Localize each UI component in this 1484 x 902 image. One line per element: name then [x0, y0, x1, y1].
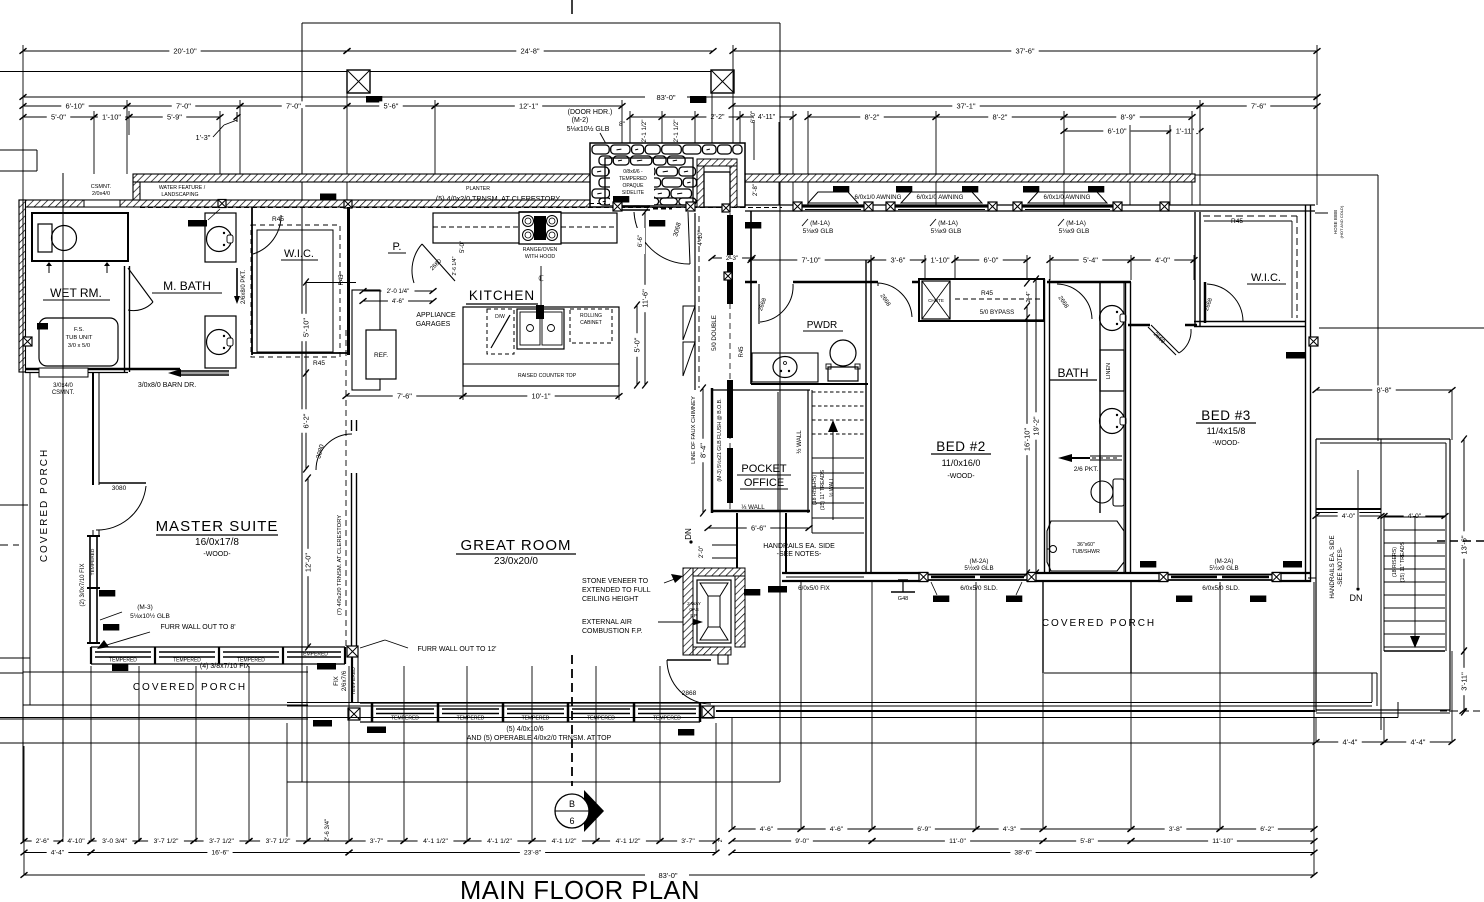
wet rm toilet room walls [32, 213, 128, 261]
stair wall left mid [811, 390, 813, 533]
top wall right segment (under awnings) [745, 204, 1315, 206]
wic left room dashed [251, 225, 340, 357]
svg-text:16'-10": 16'-10" [1022, 428, 1031, 452]
tag planter2 [320, 194, 336, 201]
corner tick 83ft [1314, 94, 1321, 100]
svg-text:11'-6": 11'-6" [640, 289, 649, 308]
svg-text:4'-1 1/2": 4'-1 1/2" [423, 838, 448, 845]
svg-text:6'-9": 6'-9" [917, 826, 931, 833]
svg-text:3'-6": 3'-6" [891, 255, 906, 264]
pocket office inner wall [777, 392, 779, 511]
extension lines to bottom dims [90, 666, 92, 842]
svg-text:WATER FEATURE /: WATER FEATURE / [159, 185, 206, 191]
window csmnt top wall [84, 200, 120, 207]
svg-text:DN: DN [684, 528, 693, 540]
svg-text:6/0x5/0 FIX: 6/0x5/0 FIX [798, 585, 830, 592]
interior dim row bedrooms [751, 259, 871, 261]
svg-text:30351: 30351 [1178, 597, 1191, 602]
svg-text:HOSE BIBB: HOSE BIBB [1333, 210, 1338, 234]
svg-text:11'-0": 11'-0" [949, 838, 966, 845]
svg-text:5'-9": 5'-9" [167, 112, 182, 121]
porch left verticals [22, 200, 24, 842]
svg-text:TUB/SHWR: TUB/SHWR [1072, 549, 1100, 555]
awning window W1 [808, 192, 858, 203]
fix corner window [351, 649, 353, 703]
svg-text:4'-6": 4'-6" [392, 298, 404, 305]
svg-text:0/8x6/6 -: 0/8x6/6 - [623, 169, 643, 175]
svg-text:5'-6": 5'-6" [384, 101, 399, 110]
svg-text:G48: G48 [898, 596, 908, 602]
svg-text:2/6x7/6: 2/6x7/6 [341, 670, 348, 691]
wic door arc from mbath [253, 215, 281, 254]
porch post right wing [1042, 582, 1044, 673]
svg-text:4'-4": 4'-4" [51, 850, 65, 857]
svg-text:TEMPERED: TEMPERED [587, 716, 615, 722]
fireplace interior [697, 580, 731, 643]
steps at greatroom exit [712, 544, 737, 546]
bottom dim row right 1 [732, 828, 801, 830]
svg-text:7'-10": 7'-10" [801, 255, 820, 264]
svg-text:4'-4": 4'-4" [1411, 737, 1426, 746]
tub unit [39, 318, 118, 366]
svg-text:4-121: 4-121 [1090, 187, 1102, 192]
svg-text:TUB UNIT: TUB UNIT [66, 335, 93, 341]
svg-text:-SEE NOTES-: -SEE NOTES- [777, 551, 822, 558]
wet rm bottom wall [25, 368, 128, 371]
appliance garage dims [363, 290, 433, 292]
svg-text:13121: 13121 [322, 195, 335, 200]
entry dashed sill [590, 203, 605, 205]
wic bottom wall [252, 352, 347, 354]
deck right treads [1384, 516, 1445, 518]
svg-text:(15) 11" TREADS: (15) 11" TREADS [1400, 541, 1406, 582]
svg-text:4'-0": 4'-0" [1342, 513, 1356, 520]
entry hall door 2668 (pwdr door) [758, 284, 760, 324]
double doors 5/0 [683, 306, 695, 340]
svg-text:6: 6 [569, 816, 574, 826]
svg-text:8'-2": 8'-2" [865, 112, 880, 121]
svg-text:2": 2" [718, 838, 724, 843]
svg-text:11/4x15/8: 11/4x15/8 [1207, 426, 1246, 436]
master porch door 3080 [99, 482, 146, 484]
fireplace chimney stub [718, 655, 728, 664]
great room south window band [360, 702, 700, 704]
bath top wall [1047, 281, 1131, 284]
xbox below wic [1309, 337, 1318, 346]
svg-text:(M-1A): (M-1A) [810, 220, 830, 227]
svg-text:9'-0": 9'-0" [795, 838, 809, 845]
svg-text:6'-2": 6'-2" [1260, 826, 1274, 833]
bed2 right wall [1044, 279, 1046, 573]
pocket 6'-6 dim [708, 527, 809, 529]
svg-text:W.I.C.: W.I.C. [1251, 272, 1281, 284]
svg-text:6/0x1/0 AWNING: 6/0x1/0 AWNING [855, 194, 902, 201]
svg-text:37'-1": 37'-1" [956, 101, 975, 110]
svg-text:FURR WALL OUT TO 8': FURR WALL OUT TO 8' [160, 624, 235, 631]
pantry door 2680 [422, 244, 455, 281]
svg-text:7'-0": 7'-0" [286, 101, 301, 110]
svg-text:STONE VENEER TO: STONE VENEER TO [582, 578, 649, 585]
dim row 7'-6 right [1200, 105, 1317, 107]
svg-text:13'-6": 13'-6" [1459, 535, 1468, 554]
csmnt window bottom [39, 368, 88, 377]
svg-text:(M-2A): (M-2A) [970, 558, 989, 565]
svg-text:3'-7": 3'-7" [681, 838, 695, 845]
svg-text:2'-6": 2'-6" [36, 838, 50, 845]
svg-text:(4) 3/8x7/10 FIX: (4) 3/8x7/10 FIX [200, 663, 251, 670]
kitchen vdims right [644, 212, 646, 385]
svg-text:RANGE/OVEN: RANGE/OVEN [523, 247, 558, 253]
stair shaft walls mid [865, 260, 867, 573]
svg-text:4'-6": 4'-6" [830, 826, 844, 833]
svg-text:3'-7 1/2": 3'-7 1/2" [154, 838, 179, 845]
svg-text:R45: R45 [739, 346, 745, 358]
svg-text:10.851: 10.851 [770, 587, 784, 592]
svg-text:3080: 3080 [112, 485, 127, 492]
mbath vanity lower [205, 316, 236, 368]
svg-text:F.P.: F.P. [690, 613, 697, 618]
8'-4 vdim [702, 388, 704, 513]
svg-text:HANDRAILS EA. SIDE: HANDRAILS EA. SIDE [763, 543, 835, 550]
barn door [180, 370, 229, 372]
deck bottom lines [1316, 709, 1450, 711]
svg-text:5.1161: 5.1161 [1289, 353, 1303, 358]
wic inner solid [257, 230, 333, 352]
svg-text:30351: 30351 [1252, 597, 1265, 602]
svg-text:6'-6": 6'-6" [638, 235, 644, 247]
svg-text:6.0121: 6.0121 [315, 721, 329, 726]
svg-text:B&B: B&B [38, 324, 47, 329]
svg-text:2'-6 1/4": 2'-6 1/4" [452, 256, 458, 275]
svg-text:6'-10": 6'-10" [1107, 126, 1126, 135]
svg-text:2'-1 1/2": 2'-1 1/2" [641, 119, 648, 142]
svg-text:5⅛x9 GLB: 5⅛x9 GLB [931, 228, 962, 235]
mid stairs solid treads [812, 457, 864, 459]
svg-text:KITCHEN: KITCHEN [469, 288, 535, 303]
dashed line right [1437, 540, 1484, 542]
wet rm door diag [128, 268, 153, 302]
kitchen dims bottom [346, 395, 463, 397]
svg-text:10'-1": 10'-1" [531, 391, 550, 400]
svg-text:(M-3): (M-3) [137, 604, 153, 611]
south wall segments right wing [868, 572, 928, 574]
column box C2 [711, 70, 734, 93]
svg-text:5'-0": 5'-0" [51, 112, 66, 121]
door jamb hatch [697, 159, 737, 166]
svg-text:38'-6": 38'-6" [1014, 850, 1032, 857]
svg-text:2-WAY: 2-WAY [687, 601, 701, 606]
master/great wall [351, 473, 353, 649]
12-0 vdim [307, 478, 309, 647]
svg-text:3'-8": 3'-8" [1169, 826, 1183, 833]
B6 marker [584, 790, 604, 832]
post line y71 [0, 71, 712, 73]
closet dashed [955, 298, 1040, 300]
mbath vanity upper [205, 213, 236, 262]
svg-text:5⅛x10½ GLB: 5⅛x10½ GLB [130, 612, 170, 620]
svg-text:TEMPERED: TEMPERED [173, 658, 201, 664]
entry corridor west wall [694, 213, 696, 390]
sprinkler marks [48, 266, 50, 273]
wic dashed shelving [1203, 215, 1297, 217]
master south window band [91, 646, 345, 648]
stair shaft left wall lower [785, 513, 787, 573]
sidelite inner panel [605, 158, 693, 205]
svg-text:(HOT AND COLD): (HOT AND COLD) [1339, 205, 1344, 238]
svg-text:⅓ WALL: ⅓ WALL [741, 504, 765, 511]
svg-text:RAISED COUNTER TOP: RAISED COUNTER TOP [518, 373, 577, 379]
svg-text:30351: 30351 [935, 597, 948, 602]
tag sidelite [613, 196, 629, 203]
bed3 door [1148, 327, 1176, 355]
svg-text:2'-0": 2'-0" [699, 546, 705, 558]
svg-text:R45: R45 [981, 290, 993, 297]
pwdr top wall segments [912, 281, 919, 284]
master door 3080 [351, 420, 353, 431]
svg-text:-SEE NOTES-: -SEE NOTES- [1337, 547, 1344, 587]
awning window W3 [1028, 192, 1107, 203]
svg-text:(15) 11" TREADS: (15) 11" TREADS [820, 469, 826, 510]
svg-text:1'-10": 1'-10" [102, 112, 121, 121]
svg-text:WET RM.: WET RM. [50, 286, 102, 300]
great room east wall stub [736, 513, 738, 568]
svg-text:3'-0 3/4": 3'-0 3/4" [102, 838, 127, 845]
svg-text:R45: R45 [272, 216, 284, 223]
dim line 83'-0 [23, 96, 1317, 98]
awning dim row 8'-2 etc [808, 116, 936, 118]
deck upper rect [1316, 438, 1450, 440]
svg-text:TEMPERED: TEMPERED [457, 716, 485, 722]
dim row 20'-10 / 24'-8 / 37'-6 [23, 50, 347, 52]
svg-text:4'-1 1/2": 4'-1 1/2" [487, 838, 512, 845]
kitchen counter top run [433, 213, 617, 243]
small xbox chimney [724, 272, 732, 280]
bed2 vdim 16-10 [1026, 306, 1028, 573]
tag tub [37, 323, 48, 330]
kitchen centerline [540, 266, 542, 306]
svg-text:(18 RISERS): (18 RISERS) [812, 475, 818, 505]
leader door hdr [600, 133, 640, 205]
svg-text:TEMPERED: TEMPERED [90, 548, 96, 575]
awning window W2 [901, 192, 982, 203]
svg-text:11'-10": 11'-10" [1212, 838, 1233, 845]
svg-text:7'-6": 7'-6" [1251, 101, 1266, 110]
svg-text:4'-3": 4'-3" [1003, 826, 1017, 833]
pwdr bottom wall [751, 383, 868, 385]
island sink [517, 309, 564, 349]
bed2 vdim 19-2 [1035, 279, 1037, 573]
tag entry [649, 220, 665, 227]
vdim 5-10 [305, 282, 307, 373]
svg-text:5.3121: 5.3121 [190, 221, 204, 226]
svg-text:LANDSCAPING: LANDSCAPING [161, 192, 198, 198]
clerestory outline rectangle [302, 22, 780, 24]
svg-text:4-121: 4-121 [1025, 187, 1037, 192]
front door recess [704, 172, 730, 207]
svg-text:LINE OF FAUX CHIMNEY: LINE OF FAUX CHIMNEY [691, 396, 697, 464]
entry grid lines [753, 122, 755, 160]
svg-text:12'-1": 12'-1" [519, 101, 538, 110]
hall bottom wall wetrm [128, 368, 180, 371]
svg-text:6'-0": 6'-0" [984, 255, 999, 264]
svg-text:4'-4": 4'-4" [1343, 737, 1358, 746]
svg-text:5/0 BYPASS: 5/0 BYPASS [980, 309, 1015, 316]
tag mbath window [188, 220, 207, 227]
stair bottom window [782, 572, 868, 574]
svg-text:7'-6": 7'-6" [397, 391, 412, 400]
bed3 hall wall [1128, 324, 1150, 327]
svg-text:P.: P. [393, 241, 402, 253]
bedroom window 2 sld [1168, 574, 1272, 576]
svg-text:6/0x5/0 SLD.: 6/0x5/0 SLD. [960, 585, 998, 592]
deck mid rail [1380, 439, 1382, 730]
wic left wall [251, 207, 253, 355]
svg-text:TEMPERED: TEMPERED [522, 716, 550, 722]
svg-text:TEMPERED: TEMPERED [300, 652, 328, 658]
dim 4-0 4-0 deck [1316, 515, 1381, 517]
svg-text:4'-0": 4'-0" [1155, 255, 1170, 264]
svg-text:30351: 30351 [1008, 597, 1021, 602]
svg-text:2'-3": 2'-3" [726, 255, 738, 262]
bottom dim row 1 left [24, 840, 61, 842]
section cut tick top [571, 0, 573, 14]
svg-text:MASTER SUITE: MASTER SUITE [156, 518, 279, 535]
svg-text:6'-2": 6'-2" [301, 413, 310, 428]
bottom dim row 2 left [24, 852, 91, 854]
svg-text:4.9141: 4.9141 [319, 664, 333, 669]
xbox top wall [218, 200, 226, 208]
bottom dim row right 3 [732, 852, 1314, 854]
svg-text:2/6x8/0 PKT.: 2/6x8/0 PKT. [241, 270, 247, 304]
pwdr sink [752, 353, 818, 382]
svg-text:-WOOD-: -WOOD- [947, 473, 975, 480]
svg-text:BED #3: BED #3 [1201, 408, 1251, 423]
svg-text:25301: 25301 [101, 591, 114, 596]
master sw step [93, 530, 99, 536]
svg-text:8'-9": 8'-9" [1121, 112, 1136, 121]
svg-text:BATH: BATH [1057, 366, 1088, 380]
bath vanity wall [1099, 282, 1101, 513]
svg-text:-WOOD-: -WOOD- [203, 551, 231, 558]
pocket office walls [711, 388, 714, 513]
svg-text:(7) 4/0x2/0 TRNSM. AT CLERESTO: (7) 4/0x2/0 TRNSM. AT CLERESTORY [337, 515, 343, 615]
xbox chimney top [722, 204, 730, 212]
dim row A y106 [23, 105, 127, 107]
bed3 wic walls [1194, 212, 1196, 327]
wall xboxes right [1160, 202, 1169, 211]
dim row B right of entry [627, 114, 634, 120]
svg-text:3/0 x 5/0: 3/0 x 5/0 [68, 343, 90, 349]
8'-8 dim bed3 [1316, 389, 1452, 391]
svg-text:(M-1A): (M-1A) [1066, 220, 1086, 227]
svg-text:GREAT ROOM: GREAT ROOM [460, 537, 571, 554]
svg-text:COVERED PORCH: COVERED PORCH [133, 682, 247, 693]
rolling cabinet dashed [570, 309, 612, 343]
svg-text:2'-1 1/2": 2'-1 1/2" [673, 119, 680, 142]
wet rm toilet [38, 224, 52, 252]
svg-text:TEMPERED: TEMPERED [619, 176, 647, 182]
svg-text:6x6 P: 6x6 P [692, 98, 704, 103]
extension lines top dims [22, 45, 24, 200]
G48 symbol [898, 579, 908, 581]
svg-text:3'-11": 3'-11" [1459, 672, 1468, 691]
svg-text:6/0x1/0 AWNING: 6/0x1/0 AWNING [1044, 194, 1091, 201]
left exterior wall [19, 200, 26, 372]
svg-text:2'-0 1/4": 2'-0 1/4" [387, 288, 410, 295]
tag planter3 [641, 184, 657, 191]
svg-text:6/0x5/0 SLD.: 6/0x5/0 SLD. [1202, 585, 1240, 592]
svg-text:60661: 60661 [680, 730, 693, 735]
svg-text:6'-6": 6'-6" [751, 523, 766, 532]
svg-text:5'-4": 5'-4" [1083, 255, 1098, 264]
deck stair head [1316, 508, 1381, 510]
svg-text:LINEN: LINEN [1106, 363, 1112, 379]
chute box [922, 281, 950, 319]
svg-text:12'-0": 12'-0" [303, 553, 312, 572]
bath counter [1123, 282, 1125, 573]
up arrow mid stairs [832, 430, 834, 520]
wic door 2668 [1204, 282, 1207, 323]
pwdr corridor dim 2-3 [712, 257, 752, 259]
83 ft bottom line [24, 874, 1314, 876]
svg-text:CEILING HEIGHT: CEILING HEIGHT [582, 596, 639, 603]
wet rm/mbath divider wall [124, 266, 126, 372]
tub shower [1047, 521, 1124, 571]
svg-text:24'-8": 24'-8" [520, 46, 539, 55]
svg-text:2868: 2868 [682, 690, 697, 697]
svg-text:16.351: 16.351 [369, 728, 383, 733]
bath door arc [1057, 284, 1092, 319]
svg-text:4'-1 1/2": 4'-1 1/2" [552, 838, 577, 845]
svg-text:2'-6 3/4": 2'-6 3/4" [324, 819, 331, 842]
pwdr west wall [750, 211, 752, 384]
svg-text:(5) 4/0x10/6: (5) 4/0x10/6 [506, 726, 543, 733]
svg-text:4'-11": 4'-11" [758, 114, 776, 121]
svg-text:3'-7 1/2": 3'-7 1/2" [209, 838, 234, 845]
porch left stubs [0, 149, 37, 151]
svg-text:0.851: 0.851 [1142, 562, 1154, 567]
svg-text:6'-0": 6'-0" [750, 111, 757, 124]
svg-text:3'-7": 3'-7" [370, 838, 384, 845]
svg-text:17305: 17305 [747, 223, 760, 228]
section line dashed [571, 655, 573, 786]
deck down arrow [1414, 516, 1416, 638]
svg-text:2'-2": 2'-2" [711, 114, 725, 121]
svg-text:4-121: 4-121 [898, 187, 910, 192]
svg-text:R45: R45 [313, 360, 325, 367]
wic/pantry divider wall [347, 207, 350, 355]
planter left connector [133, 182, 140, 205]
svg-text:ROLLING: ROLLING [580, 313, 602, 319]
svg-text:TEMPERED: TEMPERED [653, 716, 681, 722]
bottom dim row right 2 [732, 840, 872, 842]
svg-text:4-121: 4-121 [835, 187, 847, 192]
svg-text:20861: 20861 [615, 197, 628, 202]
svg-text:2/6 PKT.: 2/6 PKT. [1074, 466, 1099, 473]
svg-text:5'-0": 5'-0" [632, 337, 641, 352]
column box C1 [347, 70, 370, 93]
svg-text:(M-2): (M-2) [572, 117, 589, 124]
svg-text:18535: 18535 [746, 590, 759, 595]
svg-text:16'-6": 16'-6" [211, 850, 229, 857]
svg-text:(18 RISERS): (18 RISERS) [1392, 547, 1398, 577]
svg-text:5⅛x10½ GLB: 5⅛x10½ GLB [567, 125, 610, 133]
svg-text:OFFICE: OFFICE [744, 477, 784, 489]
wic 5-10 top line [306, 282, 356, 284]
svg-text:FURR WALL OUT TO 12': FURR WALL OUT TO 12' [417, 646, 496, 653]
tag fireplace [744, 589, 760, 596]
svg-text:2'-4": 2'-4" [1026, 291, 1032, 302]
